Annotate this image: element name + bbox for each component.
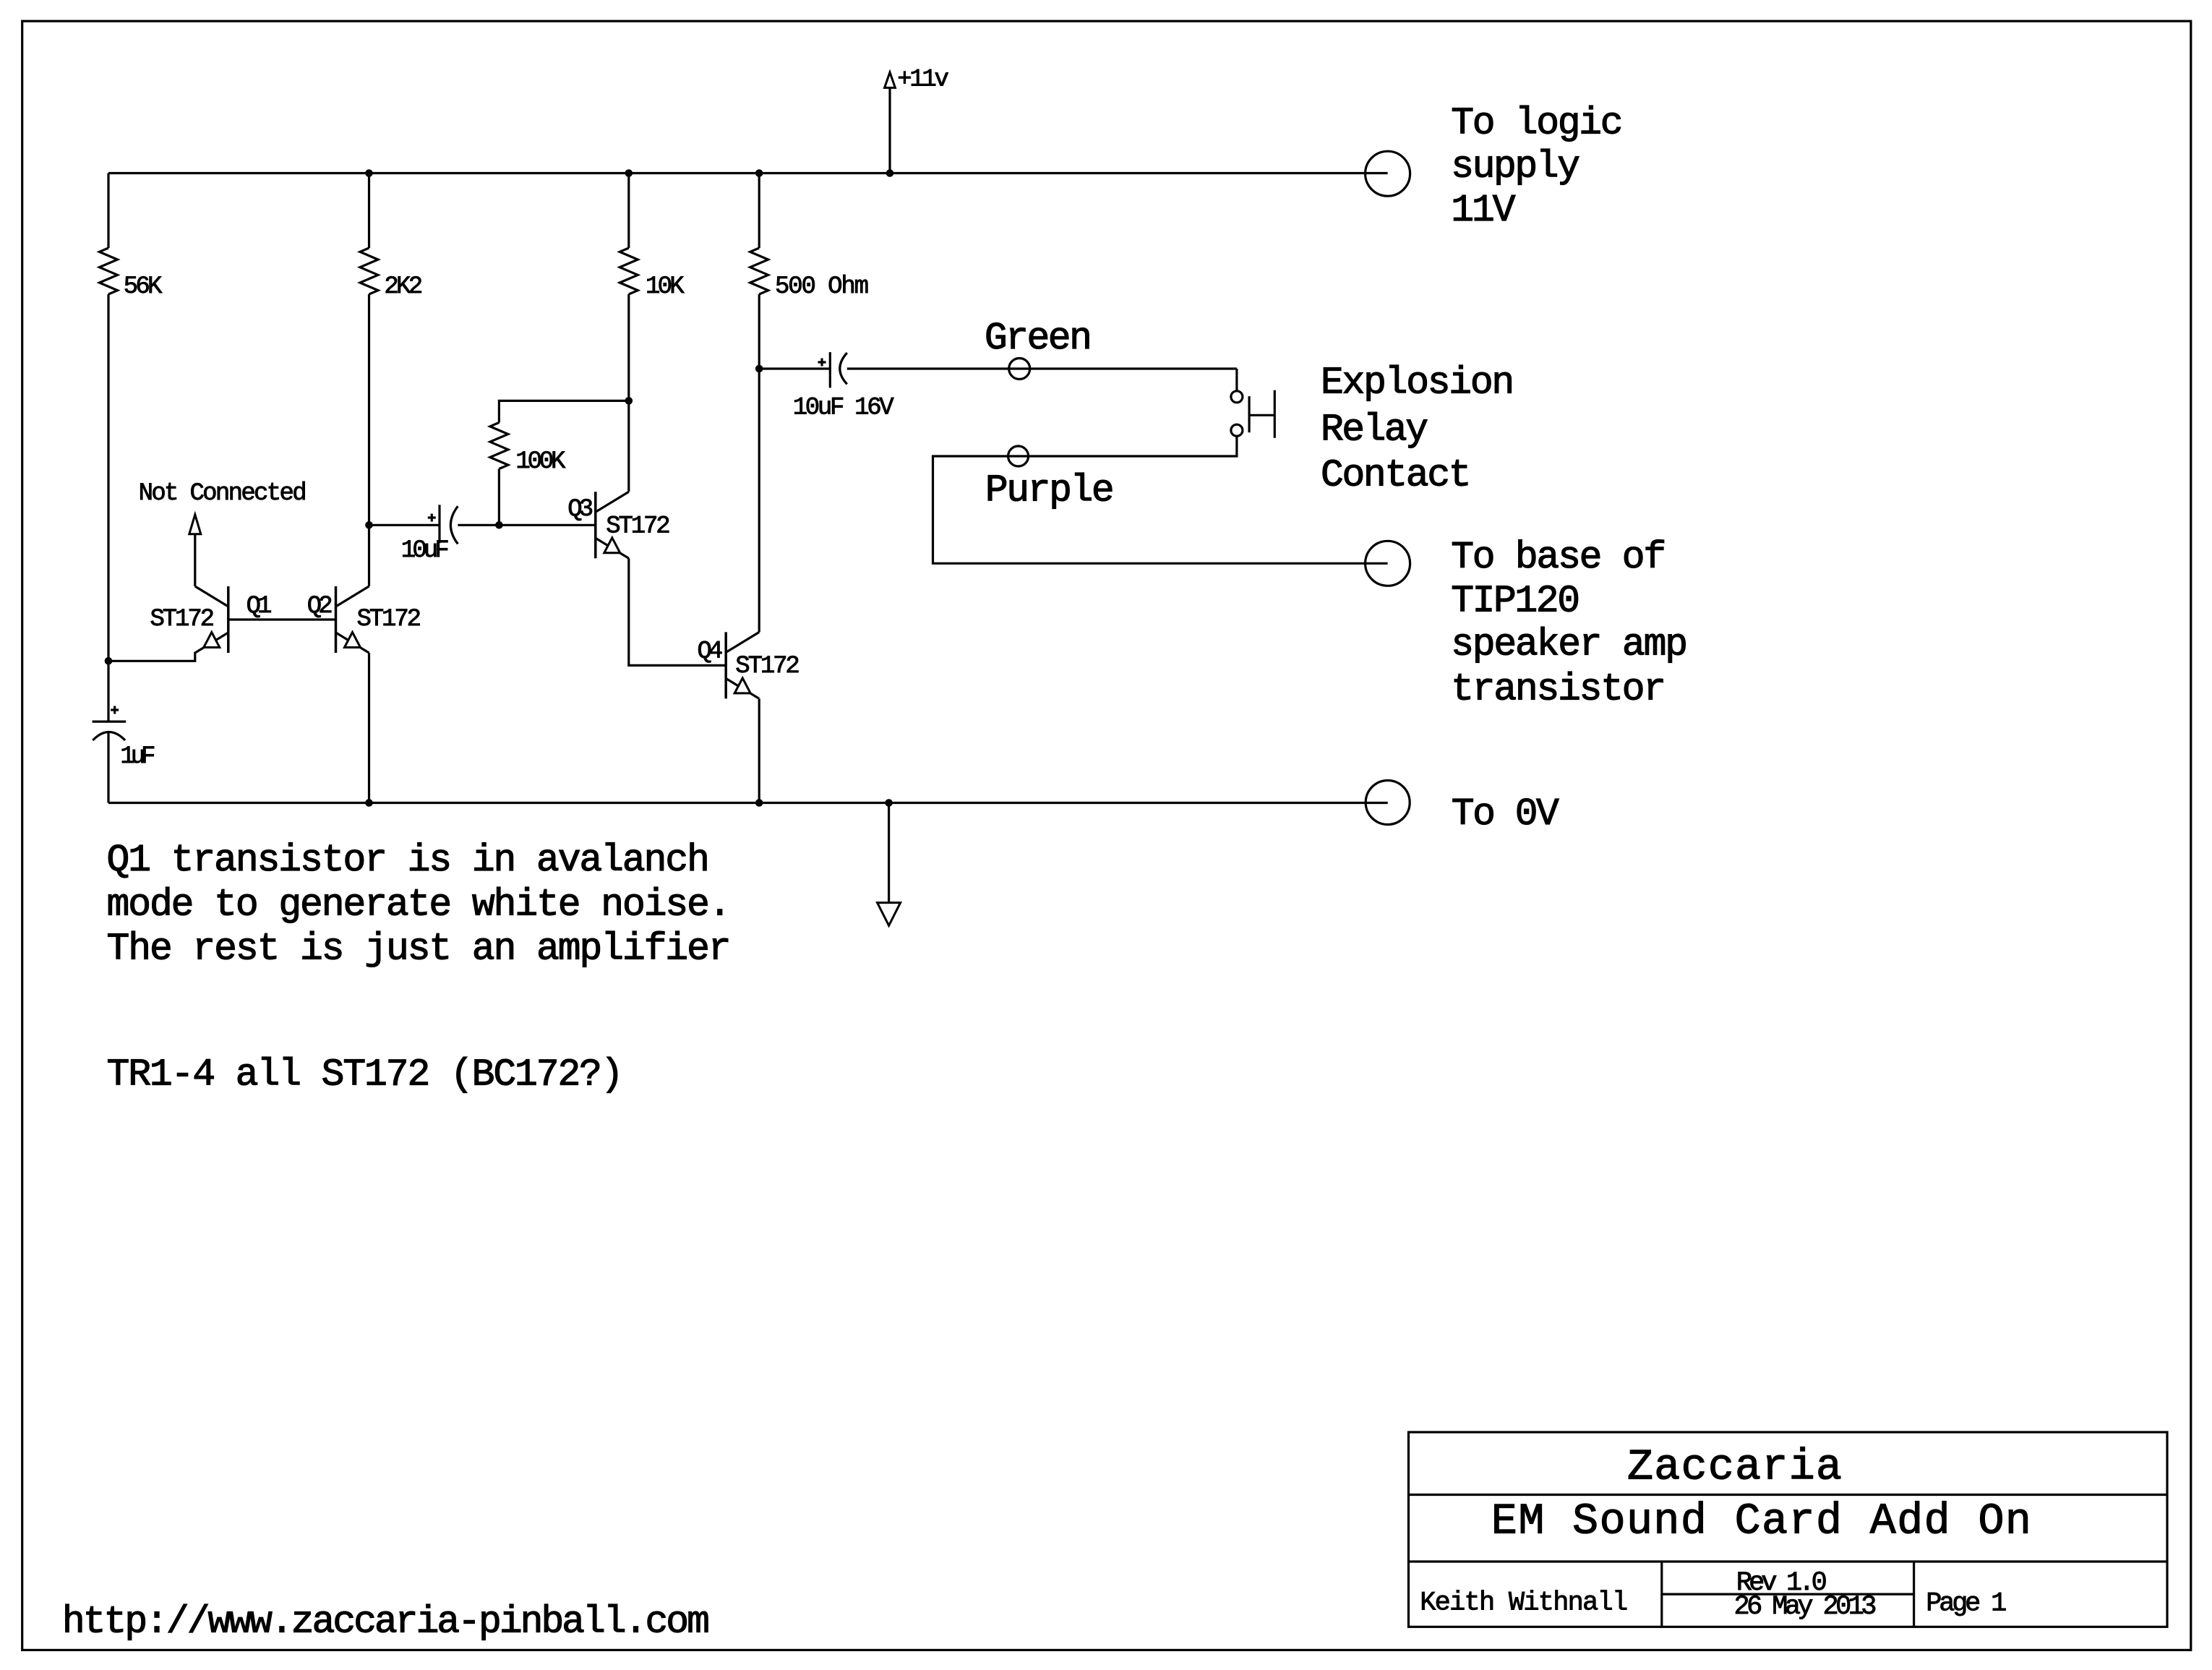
label To base of TIP120 speaker amp transistor — [1451, 536, 1688, 711]
svg-text:26 May 2013: 26 May 2013 — [1734, 1592, 1877, 1622]
svg-text:Relay: Relay — [1321, 408, 1428, 451]
svg-text:Q4: Q4 — [698, 638, 724, 666]
terminal To logic supply 11V — [1366, 151, 1410, 196]
svg-text:100K: 100K — [515, 448, 566, 476]
title block frame — [1409, 1432, 2168, 1627]
resistor 100K — [490, 423, 508, 469]
svg-text:11V: 11V — [1451, 189, 1516, 232]
transistor Q4 (ST172) — [726, 632, 759, 698]
resistor 56K — [100, 248, 118, 294]
resistor 500 Ohm — [750, 248, 768, 294]
capacitor C 1uF — [93, 706, 127, 741]
wire 1uF to bottom rail — [107, 732, 109, 803]
wire Q1 emitter to left rail — [108, 633, 228, 661]
svg-text:mode to generate white noise.: mode to generate white noise. — [107, 883, 732, 926]
wire base Q1-Q2 — [228, 618, 336, 620]
connector pin Purple — [1008, 446, 1029, 466]
resistor 2K2 — [360, 248, 378, 294]
svg-text:TR1-4 all ST172 (BC172?): TR1-4 all ST172 (BC172?) — [107, 1053, 624, 1096]
label To logic supply 11V — [1451, 101, 1623, 232]
node junction bottom rail Q4 emitter — [755, 799, 763, 807]
terminal To base of TIP120 — [1366, 541, 1410, 586]
svg-text:2K2: 2K2 — [384, 273, 423, 301]
terminal To 0V — [1366, 781, 1410, 825]
svg-text:Q1: Q1 — [247, 593, 273, 620]
node junction top rail 10K — [625, 169, 633, 177]
wire 10uF left lead — [369, 524, 440, 526]
svg-text:supply: supply — [1451, 145, 1580, 189]
wire 10K branch top — [627, 174, 630, 249]
svg-text:10K: 10K — [646, 273, 685, 301]
arrow Not Connected — [189, 515, 201, 534]
transistor Q3 (ST172) — [596, 492, 629, 558]
ground symbol — [878, 803, 901, 926]
capacitor C 10uF 16V — [818, 352, 847, 387]
svg-text:TIP120: TIP120 — [1451, 580, 1580, 623]
switch relay contact — [1231, 390, 1274, 438]
svg-text:Green: Green — [985, 317, 1092, 360]
svg-text:ST172: ST172 — [357, 606, 422, 633]
svg-text:Q1 transistor is in avalanch: Q1 transistor is in avalanch — [107, 839, 710, 882]
wire Purple net — [933, 436, 1388, 563]
connector pin Green — [1009, 359, 1030, 380]
node junction 100K to 10K branch — [625, 397, 633, 405]
node junction top rail +11v arrow — [886, 169, 894, 177]
svg-text:Page 1: Page 1 — [1926, 1588, 2007, 1619]
wire 100K top lead — [499, 401, 628, 422]
svg-text:transistor: transistor — [1451, 667, 1666, 711]
svg-text:500 Ohm: 500 Ohm — [775, 273, 869, 301]
wire Q2 emitter to bottom rail — [368, 653, 370, 803]
wire top +11V rail — [108, 172, 1388, 174]
svg-text:ST172: ST172 — [735, 653, 800, 680]
wire Q2 collector branch — [368, 294, 370, 586]
svg-text:Not Connected: Not Connected — [139, 480, 307, 508]
svg-text:56K: 56K — [124, 273, 163, 301]
svg-text:The rest is just an amplifier: The rest is just an amplifier — [107, 927, 732, 970]
node junction top rail 500 Ohm — [755, 169, 763, 177]
wire Q4 emitter to bottom rail — [758, 698, 760, 802]
svg-text:1uF: 1uF — [120, 743, 155, 771]
svg-text:ST172: ST172 — [150, 606, 215, 633]
svg-text:ST172: ST172 — [606, 513, 671, 540]
svg-text:10uF 16V: 10uF 16V — [793, 395, 895, 422]
wire 100K bottom lead — [498, 469, 500, 526]
node junction 10uF tap — [365, 521, 373, 529]
capacitor C 10uF — [428, 505, 458, 544]
power symbol +11v arrow — [885, 72, 896, 174]
node junction left rail / Q1 emitter — [105, 657, 113, 665]
svg-text:Keith Withnall: Keith Withnall — [1420, 1588, 1628, 1618]
wire Green net — [847, 367, 1237, 369]
wire 500 Ohm branch — [758, 174, 760, 249]
svg-text:speaker amp: speaker amp — [1451, 623, 1688, 667]
node junction bottom rail Q2 emitter — [365, 799, 373, 807]
wire bottom 0V rail — [108, 802, 1388, 804]
svg-text:To 0V: To 0V — [1452, 792, 1559, 836]
wire 10K to Q3 collector — [627, 294, 630, 492]
wire to switch upper contact — [1235, 369, 1238, 391]
wire left branch upper — [107, 174, 109, 249]
wire left branch lower — [107, 294, 109, 721]
node junction 10uF 16V tap — [755, 365, 763, 373]
wire 500 Ohm to Q4 collector — [758, 294, 760, 632]
svg-text:http://www.zaccaria-pinball.co: http://www.zaccaria-pinball.com — [62, 1601, 710, 1644]
wire 2K2 top — [368, 174, 370, 249]
wire Q1 collector to Not Connected arrow — [194, 534, 196, 586]
svg-text:Contact: Contact — [1321, 454, 1472, 497]
transistor Q2 (ST172) — [336, 586, 369, 653]
label Explosion Relay Contact — [1321, 361, 1514, 497]
wire 10uF 16V left lead — [759, 367, 830, 369]
svg-text:Purple: Purple — [985, 469, 1115, 513]
node junction bottom rail ground — [885, 799, 893, 807]
svg-text:+11v: +11v — [897, 67, 949, 94]
svg-text:Q3: Q3 — [567, 496, 593, 523]
svg-text:Explosion: Explosion — [1321, 361, 1514, 404]
transistor Q1 (ST172) — [195, 586, 228, 653]
wire Q3 emitter to Q4 base — [629, 558, 726, 665]
svg-text:Q2: Q2 — [307, 593, 333, 620]
svg-text:To base of: To base of — [1451, 536, 1666, 579]
node junction 100K / Q3 base — [495, 521, 503, 529]
svg-text:Zaccaria: Zaccaria — [1627, 1443, 1842, 1492]
svg-text:10uF: 10uF — [401, 537, 450, 565]
resistor 10K — [620, 248, 638, 294]
svg-text:To logic: To logic — [1451, 101, 1623, 145]
wire 10uF right lead to Q3 base — [458, 524, 595, 526]
note text avalanche mode — [107, 839, 732, 970]
node junction top rail 2K2 — [365, 169, 373, 177]
